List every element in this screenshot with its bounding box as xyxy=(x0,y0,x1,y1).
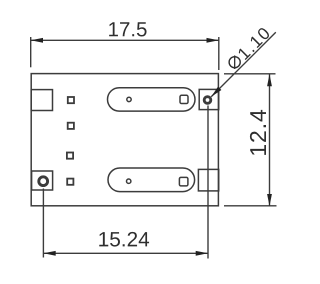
extension line bottom right xyxy=(207,106,209,259)
slot square pad top xyxy=(180,95,188,103)
dimension text 15.24 xyxy=(99,232,149,247)
slot hole top xyxy=(127,97,131,101)
hole ring bottom-left xyxy=(39,177,48,186)
pad square bottom-left xyxy=(32,171,53,190)
dimension text 17.5 xyxy=(109,22,146,36)
hole ring top-right xyxy=(204,97,211,104)
slot square pad bottom xyxy=(179,177,188,186)
pin square 4 xyxy=(67,179,73,185)
dimension text 12.4 xyxy=(250,110,266,155)
pad square top-right xyxy=(199,89,219,109)
dimension line 17.5 xyxy=(31,38,219,43)
dimension line 15.24 xyxy=(43,251,208,256)
leader line diameter callout xyxy=(211,32,276,97)
extension line top left xyxy=(30,37,32,67)
pin square 3 xyxy=(67,153,73,159)
extension line right bottom xyxy=(224,205,277,207)
diameter text 1.10 xyxy=(227,26,271,70)
body outline xyxy=(31,74,218,206)
slot obround top xyxy=(108,88,196,111)
extension line right top xyxy=(224,73,276,75)
slot hole bottom xyxy=(127,179,131,183)
slot obround bottom xyxy=(108,168,195,192)
pin square 1 xyxy=(68,97,74,103)
extension line bottom left xyxy=(42,189,44,258)
pin square 2 xyxy=(68,123,74,129)
dimension line 12.4 xyxy=(267,74,272,206)
notch rectangle left xyxy=(31,90,52,111)
notch rectangle right xyxy=(198,169,218,191)
extension line top right xyxy=(218,37,220,70)
